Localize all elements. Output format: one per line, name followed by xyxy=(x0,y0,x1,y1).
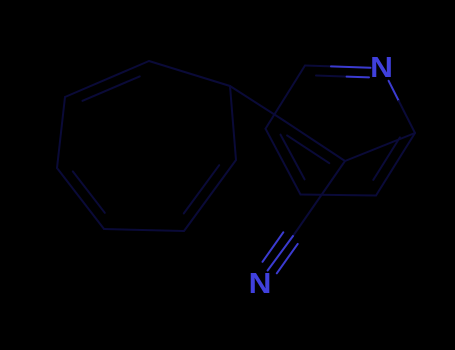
cycloheptatriene ring: edge V6-V7 xyxy=(57,97,65,168)
pyridine ring bond C2-C3 xyxy=(266,66,306,129)
cycloheptatriene ring: edge V3-V4 double bond inner line xyxy=(184,165,219,213)
cycloheptatriene ring: edge V3-V4 (double bond outer line) xyxy=(184,160,236,231)
svg-text:N: N xyxy=(249,268,272,300)
pyridine bond N1-C6 bright half (from N label) xyxy=(389,81,399,101)
cycloheptatriene ring: edge V7-V1 double bond inner line xyxy=(83,76,140,100)
cycloheptatriene ring: edge V7-V1 (double bond outer line) xyxy=(65,61,149,97)
pyridine ring bond C5-C6 (double outer) xyxy=(376,133,415,196)
pyridine N1=C2 double bond main line dark half xyxy=(305,65,331,68)
vinyl double bond A=B inner line xyxy=(287,135,329,163)
pyridine ring bond C4-C5 xyxy=(301,195,377,196)
cycloheptatriene ring: edge V4-V5 xyxy=(104,229,184,231)
C#N nitrile triple bond side line lower-right xyxy=(277,244,298,273)
single bond B-C6 (vinyl to pyridine C6) xyxy=(345,133,415,161)
pyridine C5=C6 double bond inner line xyxy=(373,137,400,180)
pyridine bond N1-C6 dark half xyxy=(399,101,415,133)
pyridine ring bond C3-C4 (double outer) xyxy=(266,129,301,195)
nitrile bond B-Csp + C#N main line dark half xyxy=(293,161,345,236)
single bond V2-A (heptagon to vinyl CH) xyxy=(230,86,283,120)
pyridine N1=C2 inner line dark half xyxy=(316,76,347,77)
pyridine N1=C2 inner line bright half xyxy=(347,76,369,79)
vinyl double bond A=B main line xyxy=(283,120,345,161)
cycloheptatriene ring: edge V1-V2 xyxy=(149,61,230,86)
cycloheptatriene ring: edge V5-V6 (double bond outer line) xyxy=(57,168,104,229)
C#N nitrile triple bond side line upper-left xyxy=(263,232,284,261)
pyridine N1=C2 double bond main line bright half (to N label) xyxy=(331,66,371,67)
cycloheptatriene ring: edge V2-V3 xyxy=(230,86,236,160)
pyridine C3=C4 double bond inner line xyxy=(281,135,305,180)
svg-text:N: N xyxy=(370,52,393,84)
cycloheptatriene ring: edge V5-V6 double bond inner line xyxy=(73,171,105,212)
C#N nitrile main line bright half (to N label) xyxy=(268,236,293,271)
